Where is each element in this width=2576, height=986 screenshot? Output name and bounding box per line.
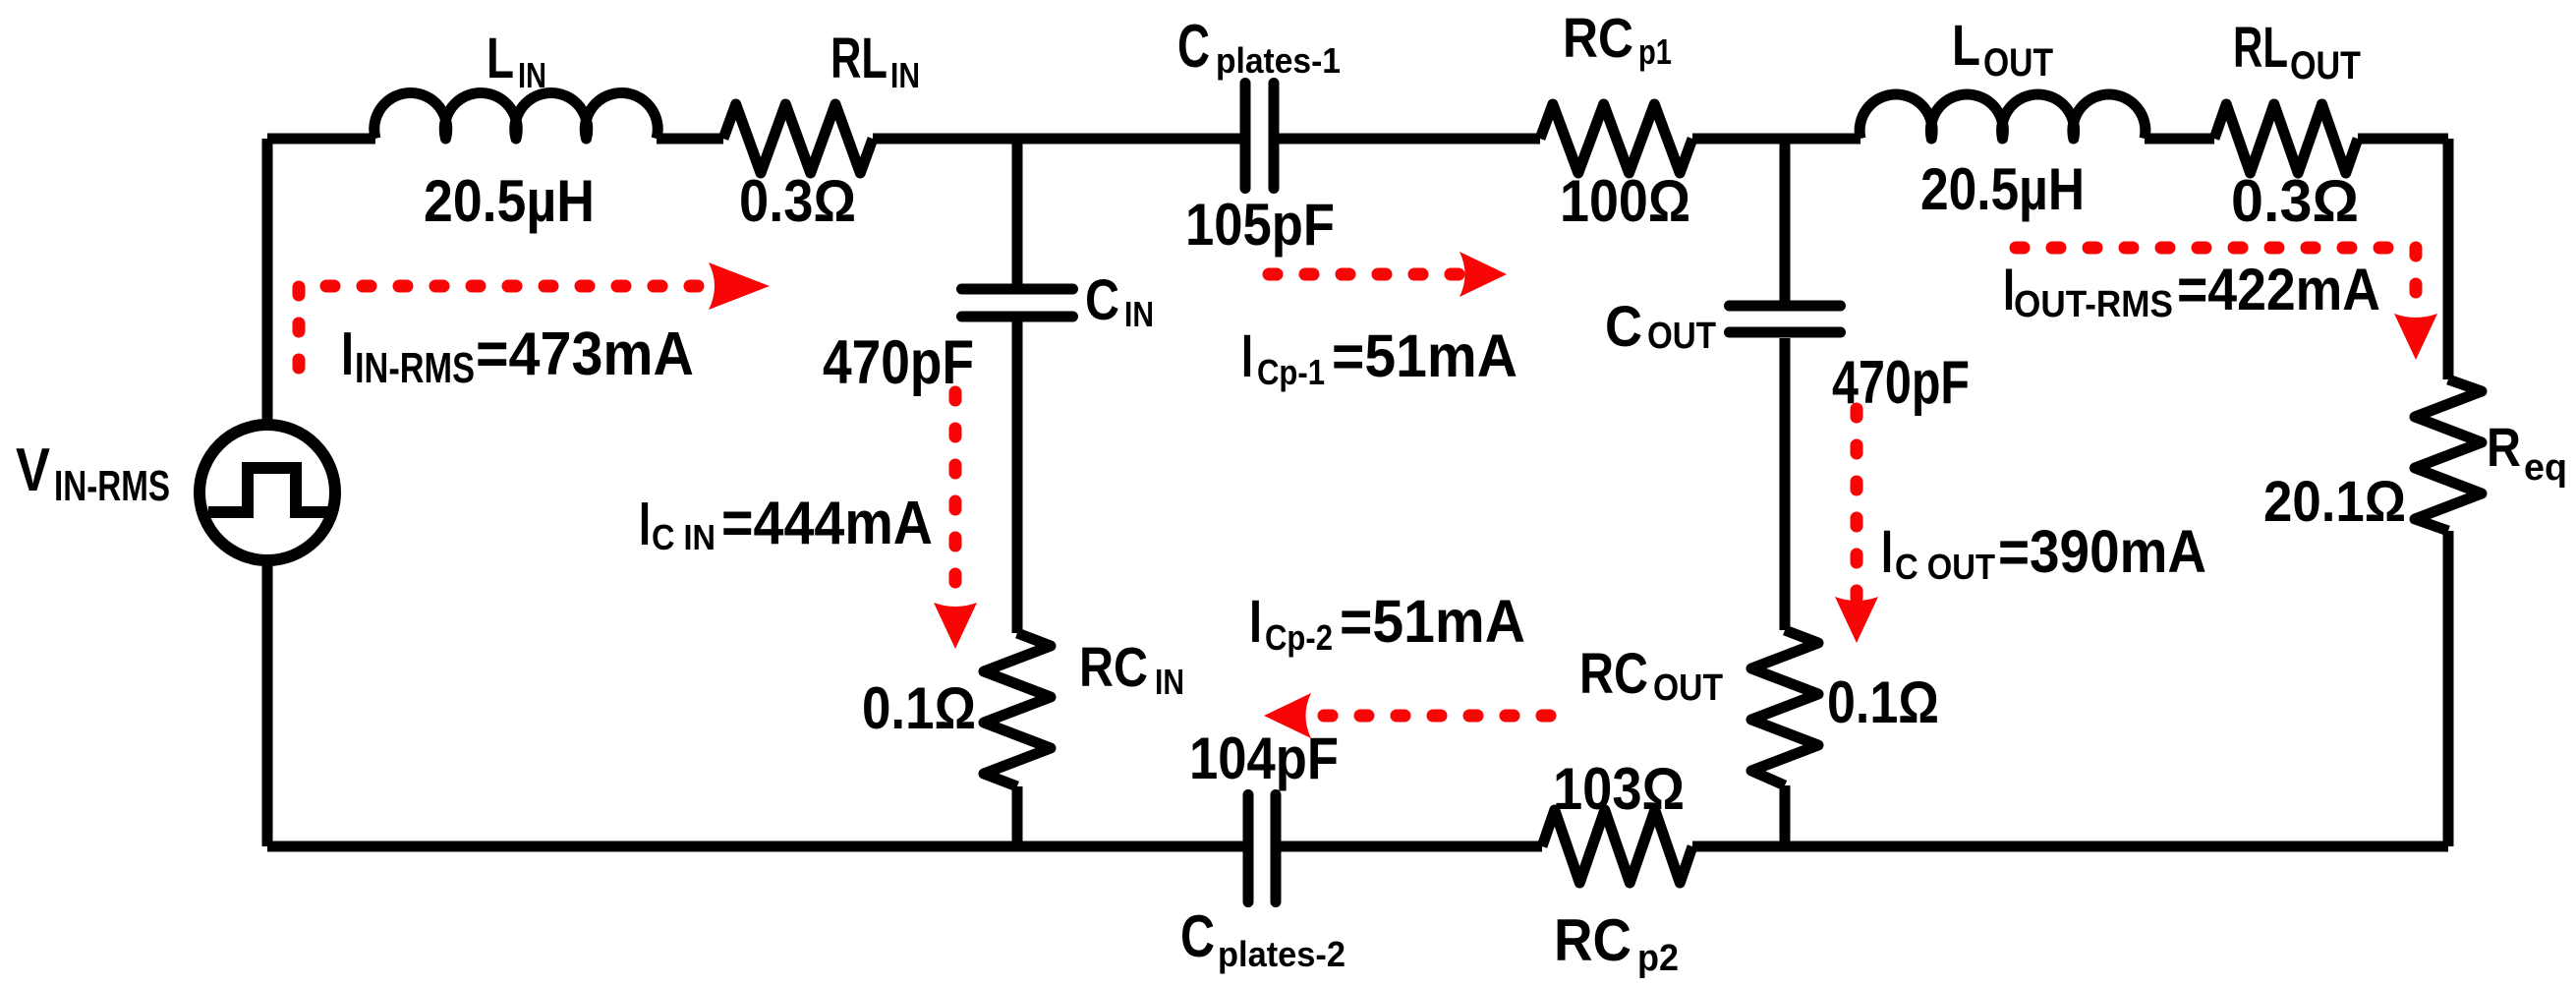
svg-text:IN: IN xyxy=(1124,294,1154,334)
wire CIN branch middle xyxy=(1012,321,1023,633)
resistor Req xyxy=(2415,379,2482,531)
svg-text:C: C xyxy=(1085,268,1119,332)
svg-text:I: I xyxy=(1241,322,1253,389)
resistor RLOUT xyxy=(2214,104,2358,173)
svg-text:p2: p2 xyxy=(1637,938,1679,979)
current arrow IIN-RMS dashed line xyxy=(299,286,710,368)
svg-text:103Ω: 103Ω xyxy=(1553,756,1685,822)
svg-text:=51mA: =51mA xyxy=(1340,588,1525,655)
resistor RLIN xyxy=(723,104,873,173)
label IC-IN=444mA xyxy=(639,490,933,558)
wire CIN branch upper xyxy=(1012,139,1023,284)
svg-text:470pF: 470pF xyxy=(823,328,974,397)
svg-text:OUT: OUT xyxy=(1647,316,1716,357)
svg-text:100Ω: 100Ω xyxy=(1560,168,1690,234)
svg-text:I: I xyxy=(1881,518,1893,585)
svg-text:Cp-1: Cp-1 xyxy=(1257,352,1325,392)
current arrow ICp-2 dashed line xyxy=(1309,710,1550,723)
resistor RCOUT xyxy=(1751,630,1818,785)
inductor LOUT xyxy=(1860,94,2146,139)
capacitor COUT top plate xyxy=(1730,301,1841,312)
label RLOUT xyxy=(2233,16,2361,87)
svg-text:105pF: 105pF xyxy=(1185,192,1335,258)
wire bottom: left to Cplates-2 xyxy=(267,841,1248,852)
wire right vertical below Req xyxy=(2443,531,2454,846)
label LIN xyxy=(487,27,546,95)
wire COUT branch upper xyxy=(1780,139,1791,301)
capacitor Cplates-1 right plate xyxy=(1269,84,1280,189)
wire COUT branch middle xyxy=(1780,338,1791,630)
svg-text:104pF: 104pF xyxy=(1189,725,1339,791)
svg-text:I: I xyxy=(341,320,354,388)
wire top: RLOUT to right corner xyxy=(2358,134,2448,145)
label Req xyxy=(2487,416,2567,489)
svg-text:IN-RMS: IN-RMS xyxy=(54,462,170,510)
capacitor Cplates-2 right plate xyxy=(1271,795,1282,902)
current arrow IC-OUT head xyxy=(1835,597,1878,643)
current arrow IC-OUT dashed line xyxy=(1851,409,1863,598)
current arrow IC-IN head xyxy=(934,603,977,649)
svg-text:RC: RC xyxy=(1554,907,1631,973)
wire top: RLIN to Cplates-1 xyxy=(873,134,1245,145)
current arrow IOUT-RMS head xyxy=(2394,314,2437,360)
label IC-OUT=390mA xyxy=(1881,518,2206,587)
svg-text:eq: eq xyxy=(2524,447,2567,489)
svg-text:IN-RMS: IN-RMS xyxy=(355,344,475,392)
wire right vertical above Req xyxy=(2443,139,2454,379)
current arrow ICp-1 head xyxy=(1460,252,1507,297)
wire top: LOUT to RLOUT xyxy=(2145,134,2214,145)
svg-text:p1: p1 xyxy=(1638,31,1672,72)
label Cplates-2 xyxy=(1180,903,1345,974)
capacitor CIN top plate xyxy=(962,284,1073,295)
label IIN-RMS=473mA xyxy=(341,320,694,392)
inductor LIN xyxy=(374,92,658,139)
label RLIN xyxy=(830,27,920,95)
svg-text:=51mA: =51mA xyxy=(1332,322,1517,389)
current arrow IOUT-RMS dashed line xyxy=(2016,248,2416,315)
svg-text:V: V xyxy=(16,436,50,504)
svg-text:RC: RC xyxy=(1579,642,1648,706)
svg-text:L: L xyxy=(487,27,514,90)
capacitor Cplates-1 left plate xyxy=(1240,84,1251,189)
label CIN xyxy=(1085,268,1154,334)
svg-text:RC: RC xyxy=(1079,636,1148,699)
svg-text:=390mA: =390mA xyxy=(1998,518,2206,585)
label RCp1 xyxy=(1563,7,1672,72)
label LOUT xyxy=(1952,14,2053,85)
label RCIN xyxy=(1079,636,1184,702)
svg-text:R: R xyxy=(2487,416,2521,478)
svg-text:C OUT: C OUT xyxy=(1895,547,1995,587)
voltage source VIN-RMS circle xyxy=(200,425,335,560)
svg-text:RL: RL xyxy=(830,27,887,90)
svg-text:C: C xyxy=(1177,13,1210,81)
svg-text:IN: IN xyxy=(518,55,546,95)
svg-text:plates-1: plates-1 xyxy=(1216,40,1341,81)
svg-text:20.5µH: 20.5µH xyxy=(1920,156,2085,222)
wire CIN branch lower xyxy=(1012,786,1023,846)
svg-text:RL: RL xyxy=(2233,16,2288,80)
svg-text:plates-2: plates-2 xyxy=(1218,934,1345,974)
label IOUT-RMS=422mA xyxy=(2003,257,2380,325)
label RCOUT xyxy=(1579,642,1723,709)
wire COUT branch lower xyxy=(1780,785,1791,846)
wire top: Cplates-1 to RCp1 xyxy=(1274,134,1540,145)
wire top: source corner to LIN xyxy=(267,134,375,145)
label RCp2 xyxy=(1554,907,1679,979)
svg-text:C: C xyxy=(1605,295,1642,359)
capacitor Cplates-2 left plate xyxy=(1243,795,1254,902)
label VIN-RMS xyxy=(16,436,170,510)
wire left vertical above source xyxy=(262,139,273,426)
svg-text:=422mA: =422mA xyxy=(2177,257,2380,322)
label Cplates-1 xyxy=(1177,13,1341,81)
resistor RCp1 xyxy=(1540,104,1692,173)
current arrow ICp-1 dashed line xyxy=(1269,268,1463,281)
svg-text:IN: IN xyxy=(1155,662,1184,702)
svg-text:OUT: OUT xyxy=(2290,44,2361,87)
svg-text:OUT: OUT xyxy=(1983,41,2053,85)
resistor RCp2 xyxy=(1542,810,1692,883)
svg-text:470pF: 470pF xyxy=(1832,349,1970,417)
svg-text:RC: RC xyxy=(1563,7,1633,70)
svg-text:I: I xyxy=(1249,588,1262,655)
voltage source pulse waveform xyxy=(208,468,332,512)
svg-text:0.1Ω: 0.1Ω xyxy=(1827,669,1939,735)
resistor RCIN xyxy=(984,633,1051,786)
svg-text:L: L xyxy=(1952,14,1980,78)
label ICp-1=51mA xyxy=(1241,322,1517,392)
svg-text:0.3Ω: 0.3Ω xyxy=(739,168,856,234)
svg-text:=444mA: =444mA xyxy=(721,490,933,557)
wire bottom: RCp2 to right corner xyxy=(1692,841,2448,852)
current arrow IC-IN dashed line xyxy=(949,392,962,604)
svg-text:0.1Ω: 0.1Ω xyxy=(862,675,976,741)
svg-text:20.5µH: 20.5µH xyxy=(424,168,595,234)
svg-text:C: C xyxy=(1180,903,1215,969)
current arrow IIN-RMS head xyxy=(709,262,770,310)
svg-text:IN: IN xyxy=(890,55,920,95)
svg-text:0.3Ω: 0.3Ω xyxy=(2231,168,2359,234)
svg-text:=473mA: =473mA xyxy=(476,320,694,388)
svg-text:OUT-RMS: OUT-RMS xyxy=(2014,284,2173,325)
wire top: RCp1 to LOUT xyxy=(1692,134,1860,145)
wire bottom: Cplates-2 to RCp2 xyxy=(1276,841,1542,852)
label ICp-2=51mA xyxy=(1249,588,1525,658)
svg-text:I: I xyxy=(639,491,651,558)
current arrow ICp-2 head xyxy=(1264,693,1311,738)
svg-text:C IN: C IN xyxy=(652,517,716,557)
capacitor CIN bottom plate xyxy=(962,312,1073,322)
wire top: LIN to RLIN xyxy=(657,134,723,145)
label COUT xyxy=(1605,295,1716,359)
svg-text:Cp-2: Cp-2 xyxy=(1265,617,1333,658)
wire left vertical below source xyxy=(262,559,273,846)
svg-text:20.1Ω: 20.1Ω xyxy=(2263,470,2406,534)
capacitor COUT bottom plate xyxy=(1730,327,1841,338)
svg-text:OUT: OUT xyxy=(1653,667,1723,709)
